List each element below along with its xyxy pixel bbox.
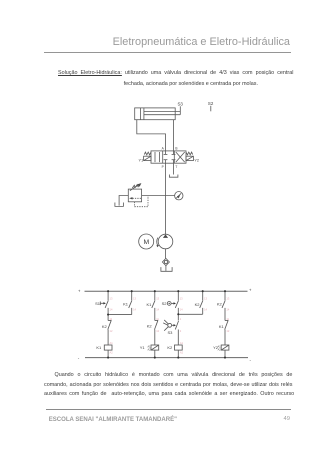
svg-text:S3: S3: [167, 330, 173, 335]
svg-text:K1: K1: [146, 302, 152, 307]
svg-text:14: 14: [156, 307, 159, 311]
svg-text:13: 13: [133, 296, 136, 300]
svg-text:P: P: [162, 165, 164, 169]
svg-text:13: 13: [110, 296, 113, 300]
svg-text:11: 11: [226, 317, 229, 321]
svg-text:+: +: [249, 288, 252, 293]
svg-text:13: 13: [156, 296, 159, 300]
svg-text:A2: A2: [180, 350, 184, 354]
svg-text:A2: A2: [218, 348, 222, 351]
svg-text:12: 12: [110, 329, 113, 333]
svg-text:11: 11: [110, 317, 113, 321]
svg-text:1: 1: [180, 317, 182, 321]
svg-text:A1: A1: [110, 341, 114, 345]
svg-text:A2: A2: [147, 348, 151, 351]
svg-text:-: -: [250, 358, 252, 363]
svg-text:14: 14: [204, 307, 207, 311]
svg-text:11: 11: [156, 317, 159, 321]
svg-text:K1: K1: [123, 302, 129, 307]
svg-text:2: 2: [180, 329, 182, 333]
svg-text:K2: K2: [147, 324, 153, 329]
svg-text:K2: K2: [102, 324, 108, 329]
svg-text:A1: A1: [180, 341, 184, 345]
svg-text:+: +: [78, 289, 81, 294]
svg-text:K2: K2: [167, 345, 173, 350]
svg-text:13: 13: [204, 296, 207, 300]
svg-text:A: A: [162, 146, 165, 150]
svg-text:Y2: Y2: [194, 159, 199, 163]
svg-text:B: B: [175, 146, 177, 150]
svg-text:S2: S2: [162, 301, 168, 306]
svg-text:K1: K1: [219, 324, 225, 329]
svg-text:Y1: Y1: [140, 345, 146, 350]
svg-text:T: T: [175, 165, 177, 169]
svg-text:14: 14: [133, 307, 136, 311]
svg-text:S3: S3: [178, 101, 184, 106]
svg-text:M: M: [143, 239, 149, 246]
svg-text:14: 14: [226, 307, 229, 311]
svg-text:12: 12: [156, 329, 159, 333]
svg-text:14: 14: [180, 307, 183, 311]
svg-text:14: 14: [110, 307, 113, 311]
svg-text:K2: K2: [217, 302, 223, 307]
svg-text:-: -: [78, 356, 80, 361]
svg-text:K2: K2: [195, 302, 201, 307]
svg-text:K1: K1: [96, 345, 102, 350]
svg-text:12: 12: [226, 329, 229, 333]
svg-text:13: 13: [226, 296, 229, 300]
svg-text:Y1: Y1: [139, 159, 144, 163]
svg-text:A2: A2: [110, 350, 114, 354]
svg-text:S1: S1: [95, 301, 101, 306]
svg-text:S2: S2: [208, 101, 214, 106]
svg-text:13: 13: [180, 296, 183, 300]
